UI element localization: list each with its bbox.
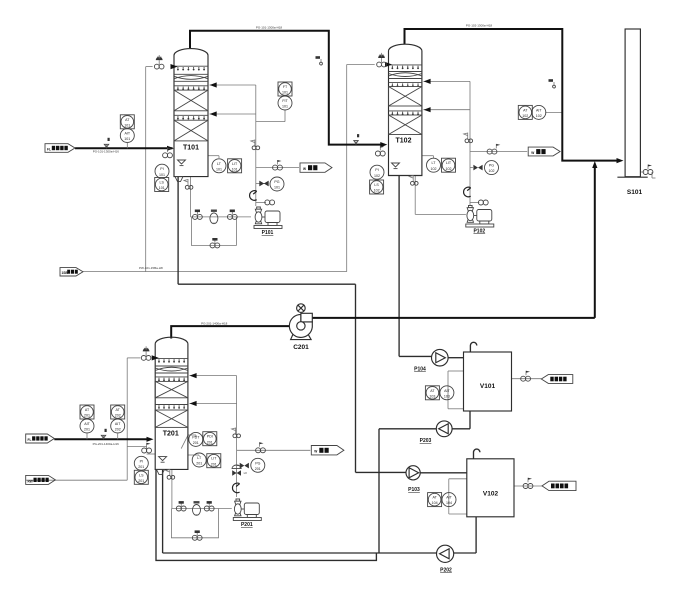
svg-text:V101: V101 [480,383,496,390]
svg-text:101: 101 [124,123,130,127]
svg-text:102: 102 [374,174,380,178]
svg-text:PG: PG [489,164,494,168]
svg-text:102: 102 [431,167,437,171]
svg-text:P101: P101 [262,230,274,236]
svg-text:RW: RW [28,479,33,483]
svg-text:W: W [314,450,317,454]
svg-text:PG-102-1300a-H18: PG-102-1300a-H18 [466,24,493,28]
svg-text:LIT: LIT [446,161,452,165]
svg-text:201: 201 [138,479,144,483]
svg-text:PI: PI [375,168,378,172]
svg-text:W: W [531,151,534,155]
svg-text:PG: PG [255,461,260,465]
svg-text:201: 201 [196,462,202,466]
svg-text:102: 102 [522,114,528,118]
svg-text:PG-201-1400a-H18: PG-201-1400a-H18 [201,322,228,326]
svg-text:P202: P202 [440,568,452,574]
svg-text:LV: LV [244,471,247,475]
svg-text:104: 104 [432,501,438,505]
svg-text:AIT: AIT [444,389,450,393]
svg-text:PG-201-1400a-H16: PG-201-1400a-H16 [93,442,120,446]
svg-text:104: 104 [446,501,452,505]
svg-text:LIT: LIT [232,162,238,166]
svg-text:C201: C201 [293,344,309,351]
svg-text:AIT: AIT [84,422,90,426]
svg-text:201: 201 [207,440,213,444]
svg-text:201: 201 [84,414,90,418]
svg-text:PI: PI [140,459,143,463]
svg-text:AIT: AIT [115,422,121,426]
svg-text:AIT: AIT [446,496,452,500]
svg-text:202: 202 [115,428,121,432]
svg-text:LS: LS [139,473,144,477]
svg-text:201: 201 [193,441,199,445]
svg-text:FIT: FIT [282,99,288,103]
svg-text:PG-101-1300a-H18: PG-101-1300a-H18 [256,25,283,29]
svg-text:W: W [303,167,306,171]
svg-text:AIT: AIT [536,108,542,112]
svg-text:103: 103 [429,394,435,398]
svg-text:101: 101 [159,173,165,177]
svg-text:T201: T201 [163,431,179,438]
svg-text:102: 102 [489,169,495,173]
svg-text:101: 101 [124,137,130,141]
svg-text:LS: LS [374,183,379,187]
svg-text:PG: PG [274,180,279,184]
svg-text:102: 102 [374,189,380,193]
svg-text:T102: T102 [396,138,412,145]
svg-text:S101: S101 [627,189,643,196]
svg-text:101: 101 [282,91,288,95]
svg-text:102: 102 [446,167,452,171]
svg-text:T101: T101 [183,145,199,152]
svg-text:P103: P103 [408,487,420,493]
svg-text:LIT: LIT [211,457,217,461]
svg-text:101: 101 [216,167,222,171]
svg-text:PDI: PDI [207,435,213,439]
svg-text:101: 101 [274,186,280,190]
svg-text:101: 101 [232,167,238,171]
svg-text:101: 101 [159,186,165,190]
svg-text:PDT: PDT [192,435,200,439]
svg-text:201: 201 [138,465,144,469]
svg-text:103: 103 [444,394,450,398]
svg-text:PG-101-1300a-H16: PG-101-1300a-H16 [93,150,120,154]
svg-text:201: 201 [211,462,217,466]
svg-text:P104: P104 [414,367,426,373]
svg-text:FL: FL [47,147,51,151]
svg-text:PW-101-15Ba-H8: PW-101-15Ba-H8 [139,266,163,270]
svg-text:202: 202 [115,414,121,418]
svg-text:201: 201 [255,467,261,471]
svg-text:101: 101 [282,105,288,109]
svg-text:P201: P201 [241,522,253,528]
svg-text:102: 102 [536,114,542,118]
svg-text:P102: P102 [473,229,485,235]
svg-text:LS: LS [159,181,164,185]
svg-text:201: 201 [84,428,90,432]
svg-text:FL: FL [28,438,32,442]
svg-text:AIT: AIT [125,132,131,136]
svg-text:PI: PI [160,167,163,171]
svg-text:V102: V102 [483,491,499,498]
svg-text:P203: P203 [420,438,432,444]
